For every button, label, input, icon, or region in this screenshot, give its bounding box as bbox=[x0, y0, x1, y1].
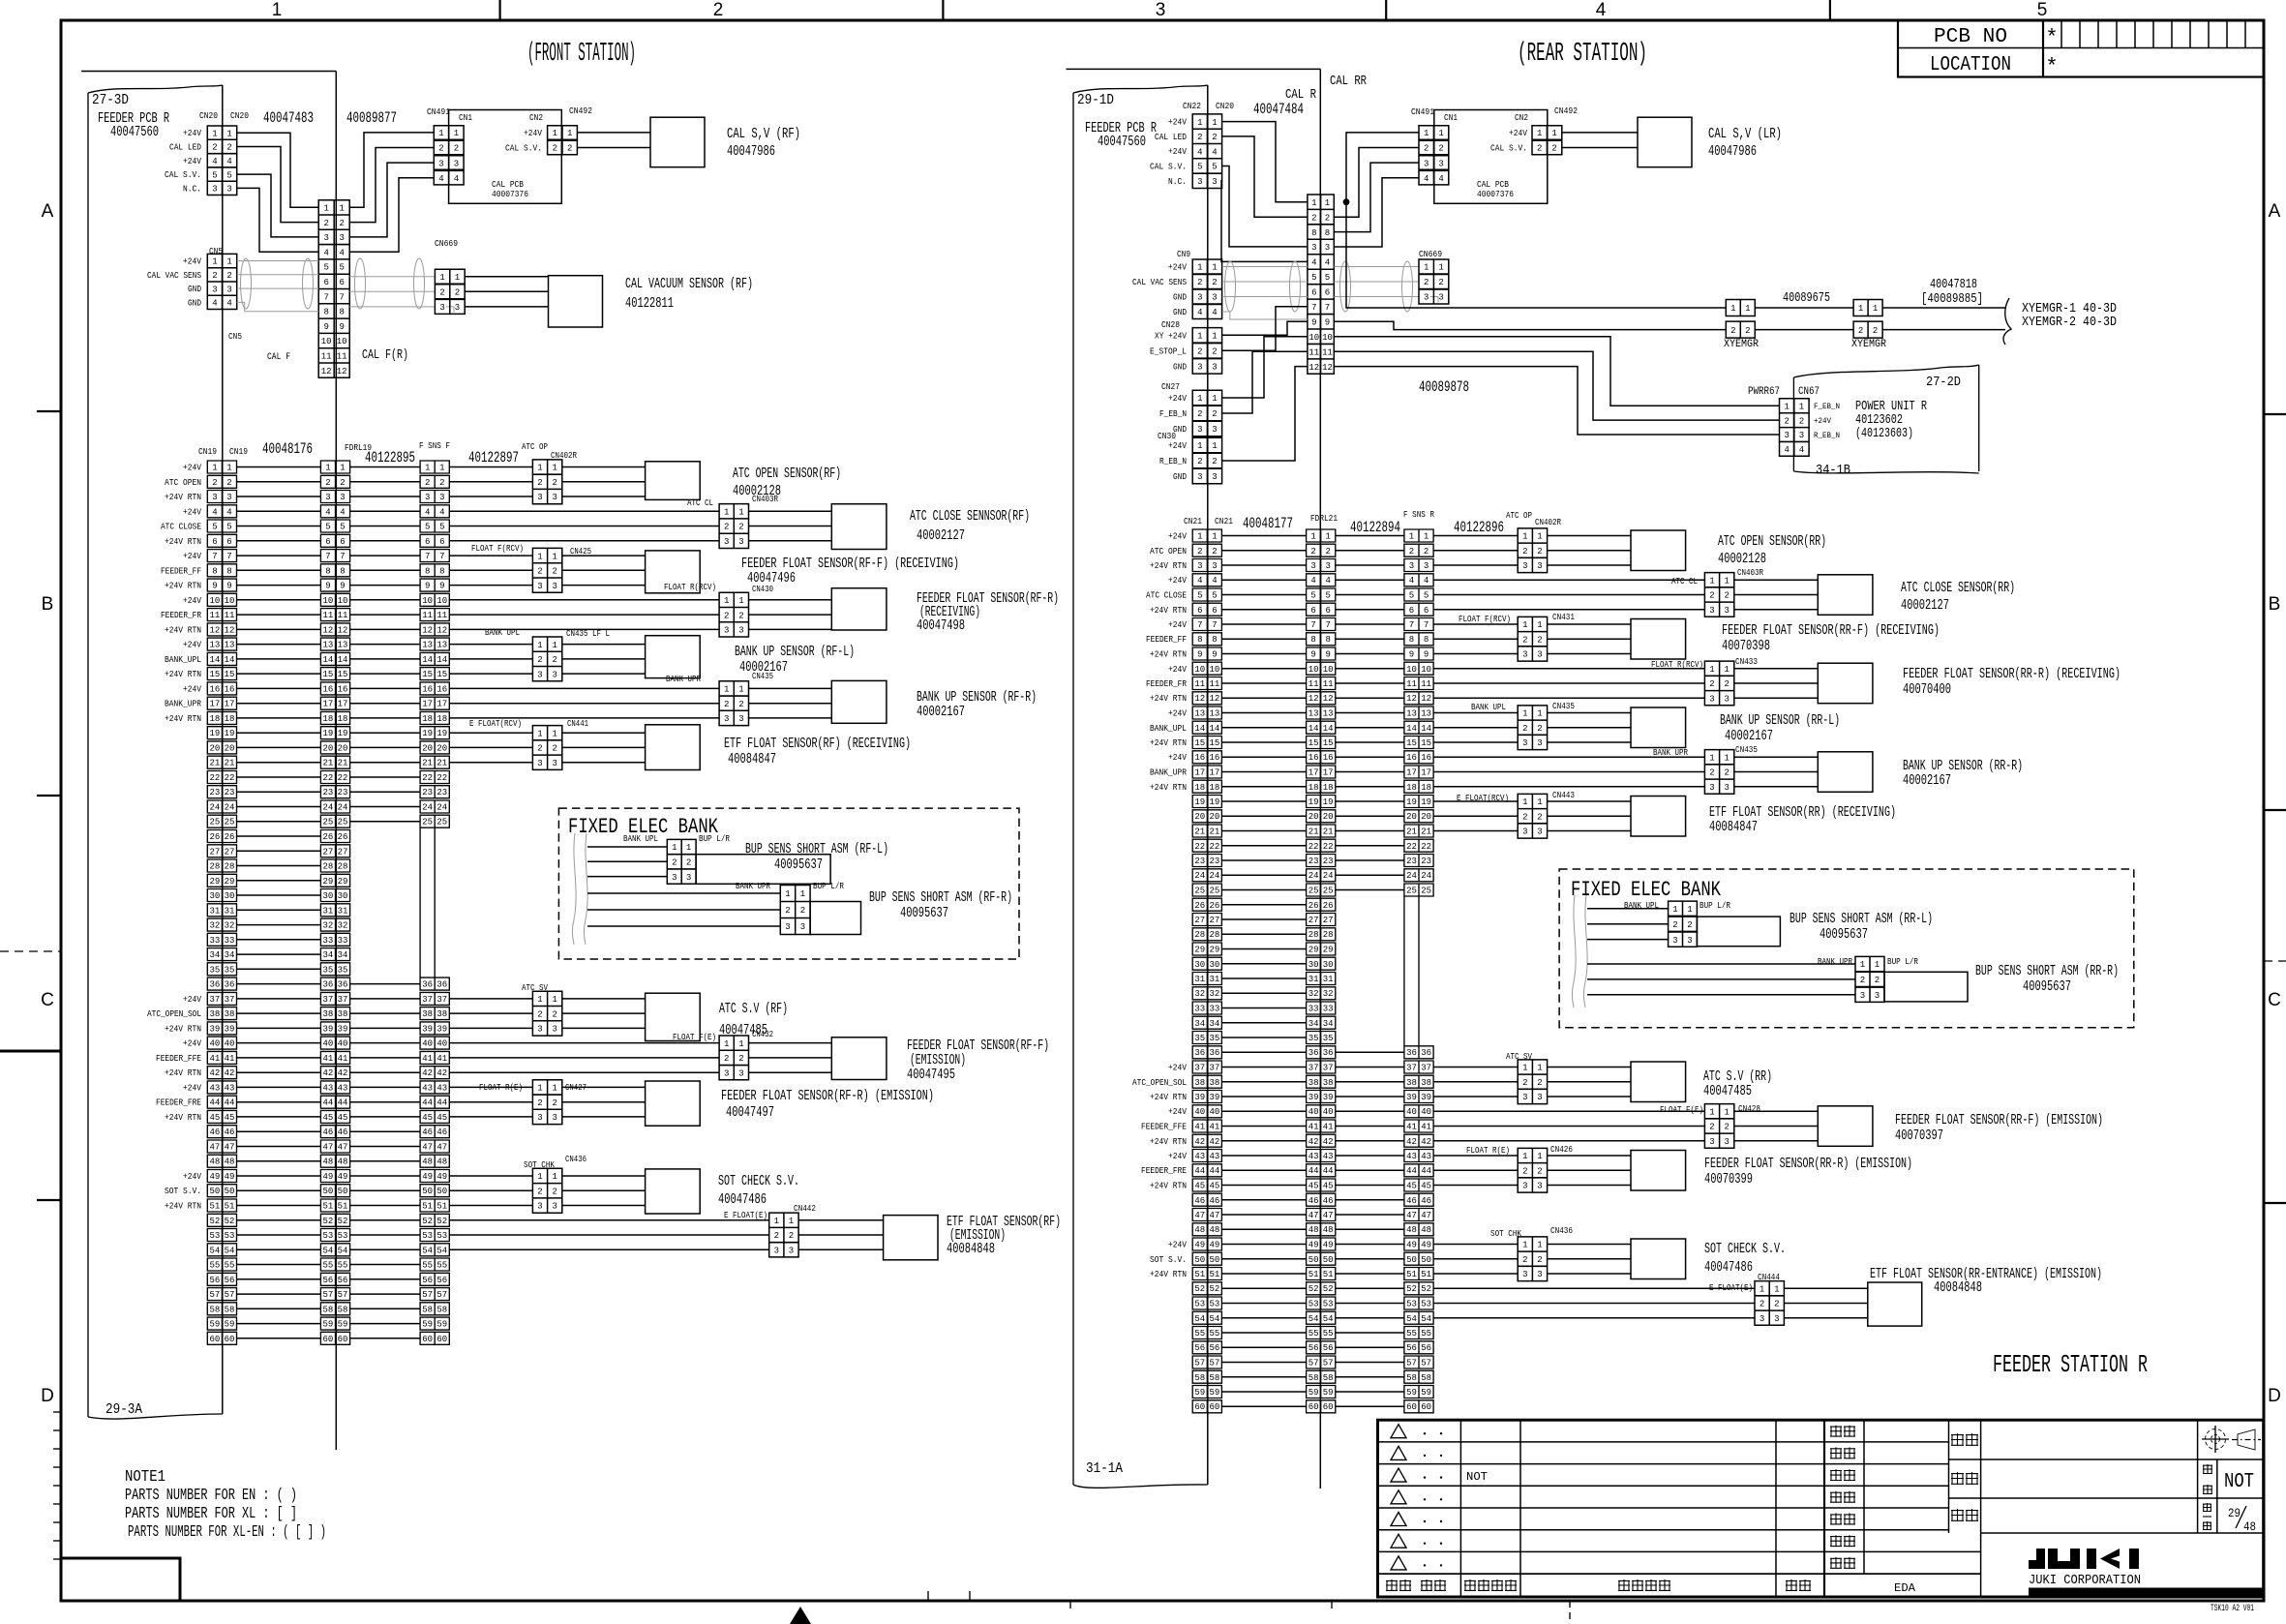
svg-text:40047483: 40047483 bbox=[263, 109, 314, 127]
bottom centre fold triangle bbox=[790, 1607, 811, 1624]
svg-text:4: 4 bbox=[212, 299, 217, 309]
svg-text:11: 11 bbox=[225, 611, 235, 620]
JUKI logo mark bbox=[2029, 1549, 2139, 1569]
svg-text:48: 48 bbox=[1209, 1225, 1219, 1235]
svg-text:12: 12 bbox=[225, 625, 235, 635]
svg-text:30: 30 bbox=[1209, 960, 1219, 970]
svg-text:26: 26 bbox=[1308, 901, 1319, 911]
svg-text:57: 57 bbox=[1194, 1359, 1205, 1368]
front harness vertical line FDRL19 boundary bbox=[335, 72, 337, 1451]
svg-text:48: 48 bbox=[1323, 1225, 1334, 1235]
svg-text:1: 1 bbox=[1745, 304, 1750, 314]
svg-text:25: 25 bbox=[436, 818, 447, 827]
svg-text:3: 3 bbox=[425, 493, 430, 502]
svg-text:2: 2 bbox=[1537, 1078, 1542, 1088]
svg-text:22: 22 bbox=[422, 773, 433, 783]
svg-text:1: 1 bbox=[1730, 304, 1735, 314]
connector ladder CN19 (60 rows) bbox=[207, 461, 236, 1344]
svg-text:+24V RTN: +24V RTN bbox=[1150, 606, 1187, 616]
labels BANK UPL / BUP L/R (rear bank L) bbox=[1624, 901, 1731, 911]
svg-text:2: 2 bbox=[1424, 144, 1429, 154]
svg-text:2: 2 bbox=[1197, 457, 1202, 466]
svg-text:5: 5 bbox=[1310, 591, 1315, 601]
svg-text:42: 42 bbox=[1308, 1137, 1319, 1147]
svg-text:3: 3 bbox=[1438, 293, 1443, 303]
svg-text:20: 20 bbox=[1323, 812, 1334, 822]
svg-text:+24V: +24V bbox=[183, 257, 202, 267]
svg-text:LOCATION: LOCATION bbox=[1930, 54, 2011, 76]
svg-text:20: 20 bbox=[1421, 812, 1431, 822]
svg-text:55: 55 bbox=[1406, 1329, 1417, 1338]
connector CN491 label bbox=[427, 106, 450, 117]
svg-text:27: 27 bbox=[338, 847, 348, 857]
svg-text:2: 2 bbox=[1522, 1078, 1527, 1088]
svg-text:21: 21 bbox=[1323, 827, 1334, 837]
svg-text:41: 41 bbox=[1194, 1123, 1205, 1132]
svg-text:[40089885]: [40089885] bbox=[1921, 291, 1983, 307]
svg-text:CN444: CN444 bbox=[1758, 1273, 1780, 1282]
svg-text:D: D bbox=[2268, 1386, 2281, 1406]
svg-text:3: 3 bbox=[1724, 1137, 1729, 1147]
svg-text:38: 38 bbox=[422, 1009, 433, 1019]
svg-text:ATC CL: ATC CL bbox=[1671, 577, 1698, 586]
svg-text:52: 52 bbox=[1421, 1284, 1431, 1294]
svg-text:41: 41 bbox=[1323, 1123, 1334, 1132]
svg-text:2: 2 bbox=[438, 144, 443, 154]
wires FDRL21 to F SNS R (rows 1-25,36-60) bbox=[1336, 536, 1404, 1407]
svg-text:60: 60 bbox=[422, 1335, 433, 1344]
svg-text:XYEMGR: XYEMGR bbox=[1724, 339, 1759, 350]
svg-text:45: 45 bbox=[1194, 1182, 1205, 1191]
svg-text:10: 10 bbox=[1421, 665, 1431, 675]
svg-text:44: 44 bbox=[436, 1098, 447, 1108]
svg-text:2: 2 bbox=[340, 478, 345, 488]
svg-text:1: 1 bbox=[1672, 905, 1677, 915]
svg-text:2: 2 bbox=[713, 0, 724, 20]
svg-text:8: 8 bbox=[1311, 228, 1316, 238]
svg-text:53: 53 bbox=[1421, 1300, 1431, 1309]
CN27 pin labels bbox=[1159, 394, 1188, 435]
top ruler zone ticks bbox=[500, 0, 1830, 20]
svg-text:19: 19 bbox=[1406, 797, 1417, 807]
svg-text:2: 2 bbox=[1212, 278, 1217, 287]
svg-text:CAL VAC SENS: CAL VAC SENS bbox=[147, 271, 201, 281]
svg-text:54: 54 bbox=[436, 1246, 447, 1255]
svg-text:7: 7 bbox=[425, 552, 430, 561]
wires to BUP SENS connector (RF-L) bbox=[587, 847, 667, 877]
svg-text:1: 1 bbox=[1311, 198, 1316, 208]
svg-text:23: 23 bbox=[209, 788, 220, 797]
svg-text:40047497: 40047497 bbox=[726, 1104, 774, 1121]
svg-text:19: 19 bbox=[225, 729, 235, 738]
svg-text:25: 25 bbox=[338, 818, 348, 827]
svg-text:30: 30 bbox=[225, 891, 235, 901]
svg-text:40047560: 40047560 bbox=[1098, 134, 1146, 150]
revision table columns bbox=[1460, 1420, 1824, 1597]
title block outer frame bbox=[1378, 1420, 2264, 1597]
svg-text:BUP L/R: BUP L/R bbox=[699, 834, 731, 844]
svg-text:1: 1 bbox=[1522, 1064, 1527, 1073]
svg-text:13: 13 bbox=[1323, 709, 1334, 719]
svg-text:40047485: 40047485 bbox=[1703, 1083, 1752, 1099]
svg-text:CAL VAC SENS: CAL VAC SENS bbox=[1132, 278, 1187, 287]
svg-text:10: 10 bbox=[209, 596, 220, 606]
svg-text:9: 9 bbox=[1325, 318, 1330, 328]
svg-text:8: 8 bbox=[1197, 635, 1202, 645]
svg-text:3: 3 bbox=[537, 1025, 542, 1035]
svg-text:15: 15 bbox=[209, 670, 220, 679]
BUP SENS plug (RR-L) bbox=[1697, 917, 1780, 947]
svg-text:22: 22 bbox=[1194, 842, 1205, 852]
label 27-2D bbox=[1926, 375, 1961, 390]
svg-text:3: 3 bbox=[1409, 561, 1414, 571]
svg-text:5: 5 bbox=[226, 170, 231, 180]
svg-text:FEEDER_FF: FEEDER_FF bbox=[1146, 635, 1187, 645]
svg-text:+24V: +24V bbox=[1168, 118, 1188, 128]
svg-text:14: 14 bbox=[1406, 724, 1417, 734]
svg-text:21: 21 bbox=[436, 759, 447, 768]
connector ladder F SNS R rows 1-25 bbox=[1404, 529, 1433, 896]
svg-text:31: 31 bbox=[338, 906, 348, 916]
svg-text:FEEDER FLOAT SENSOR(RR-F) (EM: FEEDER FLOAT SENSOR(RR-F) (EMISSION) bbox=[1895, 1112, 2103, 1128]
svg-text:6: 6 bbox=[1311, 288, 1316, 298]
label POWER UNIT R 40123602 (40123603) bbox=[1855, 399, 1927, 441]
svg-text:18: 18 bbox=[225, 714, 235, 724]
svg-text:10: 10 bbox=[225, 596, 235, 606]
svg-text:35: 35 bbox=[322, 965, 333, 975]
svg-text:2: 2 bbox=[774, 1231, 779, 1241]
svg-text:55: 55 bbox=[338, 1261, 348, 1271]
svg-text:ATC SV: ATC SV bbox=[522, 983, 548, 993]
svg-text:5: 5 bbox=[340, 523, 345, 532]
svg-text:48: 48 bbox=[422, 1158, 433, 1167]
svg-text:3: 3 bbox=[1197, 472, 1202, 482]
first-angle projection symbol bbox=[2202, 1426, 2261, 1453]
label FIXED ELEC BANK (front) bbox=[568, 815, 719, 839]
svg-text:14: 14 bbox=[436, 655, 447, 665]
cable shield ellipses (front) bbox=[241, 258, 425, 309]
svg-text:16: 16 bbox=[209, 684, 220, 694]
svg-text:52: 52 bbox=[1194, 1284, 1205, 1294]
svg-text:40089877: 40089877 bbox=[346, 109, 397, 127]
svg-text:17: 17 bbox=[1421, 768, 1431, 778]
svg-text:33: 33 bbox=[209, 936, 220, 946]
connector CN444 + ETF FLOAT SENSOR(RR-ENTRANCE) EMISSION bbox=[1433, 1288, 1755, 1318]
svg-text:1: 1 bbox=[724, 508, 729, 518]
svg-text:4: 4 bbox=[1424, 576, 1429, 586]
svg-text:CN426: CN426 bbox=[1550, 1145, 1573, 1155]
svg-text:18: 18 bbox=[422, 714, 433, 724]
svg-text:44: 44 bbox=[322, 1098, 333, 1108]
svg-text:1: 1 bbox=[1875, 960, 1880, 970]
svg-text:40: 40 bbox=[225, 1039, 235, 1049]
svg-text:1: 1 bbox=[1784, 402, 1789, 411]
svg-text:5: 5 bbox=[325, 523, 330, 532]
svg-text:14: 14 bbox=[1194, 724, 1205, 734]
svg-text:BUP SENS SHORT ASM (RR-R): BUP SENS SHORT ASM (RR-R) bbox=[1975, 963, 2119, 979]
svg-text:41: 41 bbox=[338, 1054, 348, 1064]
F SNS F gap connecting verticals bbox=[420, 828, 435, 977]
svg-text:24: 24 bbox=[1406, 871, 1417, 881]
svg-text:5: 5 bbox=[339, 263, 344, 273]
svg-text:18: 18 bbox=[1194, 783, 1205, 793]
svg-text:2: 2 bbox=[1212, 457, 1217, 466]
label FEEDER STATION R bbox=[1993, 1350, 2148, 1379]
svg-text:3: 3 bbox=[537, 582, 542, 591]
svg-text:34: 34 bbox=[322, 950, 333, 960]
svg-text:40002128: 40002128 bbox=[1718, 551, 1766, 567]
JUKI CORPORATION text bbox=[2029, 1573, 2141, 1588]
svg-text:2: 2 bbox=[226, 271, 231, 281]
svg-text:40047986: 40047986 bbox=[727, 143, 775, 160]
connector CN425 + FEEDER FLOAT SENSOR(RF-F) RECEIVING bbox=[449, 556, 532, 586]
svg-text:4: 4 bbox=[1212, 147, 1217, 157]
svg-text:B: B bbox=[42, 594, 54, 615]
CAL S.V (LR) box bbox=[1638, 117, 1692, 167]
svg-text:49: 49 bbox=[1406, 1241, 1417, 1250]
svg-text:BANK UPR: BANK UPR bbox=[736, 882, 770, 891]
svg-text:30: 30 bbox=[209, 891, 220, 901]
svg-text:40122811: 40122811 bbox=[625, 295, 674, 312]
label BUP SENS SHORT ASM (RR-L) 40095637 bbox=[1790, 911, 1933, 943]
connector XYEMGR 1 bbox=[1726, 300, 1755, 339]
svg-text:2: 2 bbox=[552, 1009, 556, 1019]
svg-text:6: 6 bbox=[1325, 288, 1330, 298]
svg-text:1: 1 bbox=[552, 552, 556, 561]
connector CN5 bbox=[207, 254, 236, 309]
svg-text:4: 4 bbox=[1424, 174, 1429, 184]
svg-text:15: 15 bbox=[1209, 738, 1219, 748]
svg-text:7: 7 bbox=[226, 552, 231, 561]
svg-text:1: 1 bbox=[1760, 1285, 1764, 1295]
svg-text:+24V: +24V bbox=[1168, 620, 1188, 630]
connector BUP L/R (RR-R) bbox=[1855, 956, 1884, 1002]
svg-text:2: 2 bbox=[1784, 416, 1789, 426]
svg-text:CAL F(R): CAL F(R) bbox=[362, 347, 408, 363]
svg-text:1: 1 bbox=[1537, 129, 1542, 138]
svg-text:24: 24 bbox=[338, 803, 348, 813]
svg-text:47: 47 bbox=[209, 1143, 220, 1153]
svg-text:21: 21 bbox=[1209, 827, 1219, 837]
svg-text:8: 8 bbox=[325, 566, 330, 576]
svg-text:6: 6 bbox=[1310, 606, 1315, 616]
BUP SENS plug (RF-R) bbox=[810, 902, 860, 935]
svg-text:2: 2 bbox=[455, 288, 460, 298]
svg-text:GND: GND bbox=[1173, 362, 1187, 372]
svg-text:2: 2 bbox=[537, 744, 542, 754]
svg-text:16: 16 bbox=[422, 684, 433, 694]
svg-text:49: 49 bbox=[225, 1172, 235, 1182]
svg-text:40: 40 bbox=[436, 1039, 447, 1049]
svg-text:1: 1 bbox=[212, 129, 217, 138]
svg-text:17: 17 bbox=[1209, 768, 1219, 778]
svg-text:43: 43 bbox=[322, 1083, 333, 1093]
svg-text:40: 40 bbox=[422, 1039, 433, 1049]
svg-text:9: 9 bbox=[425, 582, 430, 591]
wires CAL R ladder to CN491 (rear) bbox=[1334, 133, 1419, 247]
svg-text:D: D bbox=[41, 1386, 54, 1406]
svg-text:25: 25 bbox=[322, 818, 333, 827]
svg-text:1: 1 bbox=[226, 464, 231, 473]
svg-text:50: 50 bbox=[225, 1187, 235, 1196]
connector CN402R + ATC OPEN SENSOR(RF) bbox=[449, 467, 532, 497]
svg-text:47: 47 bbox=[436, 1143, 447, 1153]
svg-text:38: 38 bbox=[322, 1009, 333, 1019]
revision NOT entry bbox=[1466, 1470, 1488, 1484]
svg-text:3: 3 bbox=[1875, 991, 1880, 1001]
svg-text:16: 16 bbox=[1323, 753, 1334, 763]
svg-text:23: 23 bbox=[1209, 857, 1219, 866]
svg-text:45: 45 bbox=[1406, 1182, 1417, 1191]
svg-text:35: 35 bbox=[225, 965, 235, 975]
svg-text:42: 42 bbox=[1406, 1137, 1417, 1147]
svg-text:48: 48 bbox=[225, 1158, 235, 1167]
svg-text:10: 10 bbox=[1209, 665, 1219, 675]
svg-text:3: 3 bbox=[724, 626, 729, 636]
svg-text:40047484: 40047484 bbox=[1253, 101, 1304, 118]
svg-text:27: 27 bbox=[1194, 916, 1205, 925]
svg-text:10: 10 bbox=[1308, 333, 1319, 343]
svg-text:1: 1 bbox=[1709, 665, 1714, 675]
label BUP SENS SHORT ASM (RR-R) 40095637 bbox=[1975, 963, 2119, 995]
svg-text:52: 52 bbox=[338, 1217, 348, 1226]
svg-text:11: 11 bbox=[322, 611, 333, 620]
svg-text:10: 10 bbox=[1308, 665, 1319, 675]
svg-text:CN432: CN432 bbox=[752, 1030, 773, 1039]
label CAL R bbox=[1285, 87, 1316, 103]
svg-text:6: 6 bbox=[1197, 606, 1202, 616]
svg-text:3: 3 bbox=[1310, 561, 1315, 571]
svg-text:47: 47 bbox=[338, 1143, 348, 1153]
svg-text:31: 31 bbox=[1323, 975, 1334, 984]
connector CN669 label (front) bbox=[435, 238, 458, 249]
svg-text:F SNS R: F SNS R bbox=[1403, 509, 1434, 520]
svg-text:35: 35 bbox=[338, 965, 348, 975]
svg-text:XYEMGR-2 40-3D: XYEMGR-2 40-3D bbox=[2022, 315, 2117, 330]
CAL S.V (RF) box bbox=[650, 117, 705, 167]
svg-text:50: 50 bbox=[1323, 1255, 1334, 1265]
svg-text:3: 3 bbox=[212, 185, 217, 195]
svg-text:60: 60 bbox=[1406, 1402, 1417, 1412]
svg-text:3: 3 bbox=[1325, 561, 1330, 571]
svg-text:13: 13 bbox=[225, 641, 235, 650]
connector CN22 CN20 labels (rear) bbox=[1183, 101, 1234, 111]
svg-text:1: 1 bbox=[800, 889, 805, 899]
svg-text:2: 2 bbox=[785, 906, 790, 916]
svg-text:17: 17 bbox=[422, 700, 433, 709]
svg-text:18: 18 bbox=[1308, 783, 1319, 793]
svg-text:57: 57 bbox=[322, 1290, 333, 1300]
svg-text:39: 39 bbox=[225, 1024, 235, 1034]
svg-text:54: 54 bbox=[225, 1246, 235, 1255]
svg-text:3: 3 bbox=[1537, 1182, 1542, 1191]
svg-text:1: 1 bbox=[567, 129, 572, 138]
svg-text:21: 21 bbox=[209, 759, 220, 768]
svg-text:48: 48 bbox=[1194, 1225, 1205, 1235]
wires CN28/CN27/CN30 to CAL R ladder bbox=[1222, 307, 1308, 461]
svg-text:2: 2 bbox=[537, 655, 542, 665]
approver row labels (kanji) bbox=[1830, 1426, 1855, 1569]
svg-text:2: 2 bbox=[212, 271, 217, 281]
svg-text:47: 47 bbox=[422, 1143, 433, 1153]
svg-text:1: 1 bbox=[1325, 532, 1330, 542]
svg-text:+24V: +24V bbox=[1168, 576, 1188, 586]
svg-text:BUP SENS SHORT ASM (RF-L): BUP SENS SHORT ASM (RF-L) bbox=[745, 841, 888, 857]
svg-text:4: 4 bbox=[1325, 258, 1330, 268]
svg-text:FIXED ELEC BANK: FIXED ELEC BANK bbox=[1571, 878, 1722, 902]
svg-text:C: C bbox=[2268, 990, 2281, 1010]
svg-text:58: 58 bbox=[322, 1305, 333, 1314]
svg-text:51: 51 bbox=[422, 1202, 433, 1212]
svg-text:3: 3 bbox=[1212, 177, 1217, 187]
svg-text:43: 43 bbox=[436, 1083, 447, 1093]
svg-text:8: 8 bbox=[340, 566, 345, 576]
svg-text:15: 15 bbox=[1323, 738, 1334, 748]
svg-text:17: 17 bbox=[209, 700, 220, 709]
svg-text:26: 26 bbox=[1323, 901, 1334, 911]
svg-text:27: 27 bbox=[1209, 916, 1219, 925]
svg-text:46: 46 bbox=[322, 1128, 333, 1137]
svg-text:2: 2 bbox=[1537, 636, 1542, 646]
svg-text:FEEDER STATION R: FEEDER STATION R bbox=[1993, 1350, 2148, 1379]
svg-text:2: 2 bbox=[1438, 278, 1443, 287]
svg-text:+24V: +24V bbox=[183, 684, 202, 694]
wires CAL R ladder to XYEMGR bbox=[1334, 202, 1726, 330]
svg-text:58: 58 bbox=[422, 1305, 433, 1314]
svg-text:3: 3 bbox=[552, 1202, 556, 1212]
svg-text:34-1B: 34-1B bbox=[1816, 463, 1850, 478]
svg-text:SOT CHK: SOT CHK bbox=[524, 1160, 556, 1170]
cable squiggles (rear bank) bbox=[1572, 895, 1587, 1007]
svg-text:40095637: 40095637 bbox=[774, 857, 823, 873]
svg-text:4: 4 bbox=[1212, 308, 1217, 317]
label ATC SV (front) bbox=[522, 983, 548, 993]
svg-text:3: 3 bbox=[1156, 0, 1166, 20]
labels XYEMGR-1 / XYEMGR-2 destinations bbox=[2022, 301, 2117, 330]
label 40048177 bbox=[1243, 515, 1293, 532]
svg-text:BUP SENS SHORT ASM (RR-L): BUP SENS SHORT ASM (RR-L) bbox=[1790, 911, 1933, 927]
svg-text:34: 34 bbox=[1194, 1019, 1205, 1029]
svg-text:14: 14 bbox=[1421, 724, 1431, 734]
connector CN430 + FEEDER FLOAT SENSOR(RF-R) RECEIVING bbox=[449, 600, 719, 630]
svg-text:3: 3 bbox=[226, 493, 231, 502]
label XYEMGR (1) bbox=[1724, 339, 1759, 350]
svg-text:1: 1 bbox=[1860, 960, 1865, 970]
svg-text:5: 5 bbox=[1325, 273, 1330, 283]
svg-text:40095637: 40095637 bbox=[900, 905, 948, 921]
svg-text:BUP SENS SHORT ASM (RF-R): BUP SENS SHORT ASM (RF-R) bbox=[869, 889, 1012, 906]
svg-text:21: 21 bbox=[322, 759, 333, 768]
svg-text:49: 49 bbox=[209, 1172, 220, 1182]
svg-text:19: 19 bbox=[338, 729, 348, 738]
svg-text:2: 2 bbox=[724, 700, 729, 709]
svg-text:52: 52 bbox=[1209, 1284, 1219, 1294]
svg-text:NOT: NOT bbox=[2224, 1471, 2254, 1493]
svg-text:17: 17 bbox=[1308, 768, 1319, 778]
svg-text:11: 11 bbox=[1308, 679, 1319, 689]
svg-text:51: 51 bbox=[1209, 1270, 1219, 1279]
svg-text:12: 12 bbox=[1322, 363, 1333, 373]
svg-text:16: 16 bbox=[225, 684, 235, 694]
svg-text:49: 49 bbox=[1421, 1241, 1431, 1250]
svg-text:48: 48 bbox=[322, 1158, 333, 1167]
svg-text:55: 55 bbox=[1308, 1329, 1319, 1338]
svg-text:59: 59 bbox=[1194, 1388, 1205, 1398]
svg-text:27: 27 bbox=[1308, 916, 1319, 925]
wires CN2 to CAL S.V box (rear) bbox=[1562, 133, 1638, 148]
svg-text:3: 3 bbox=[1212, 561, 1217, 571]
svg-text:+24V RTN: +24V RTN bbox=[1150, 1093, 1187, 1102]
